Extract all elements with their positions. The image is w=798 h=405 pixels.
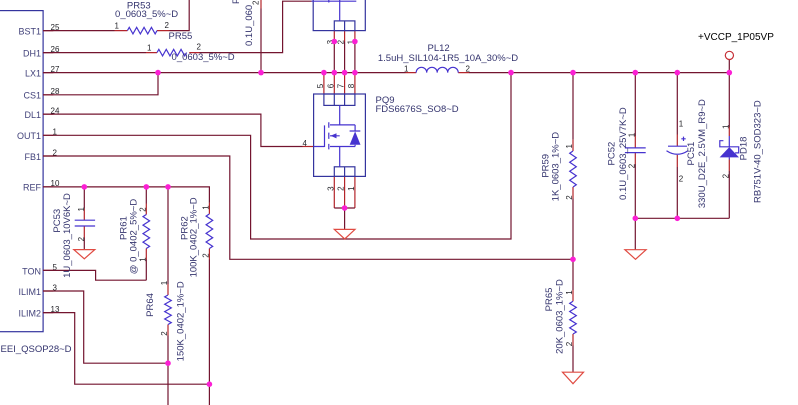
svg-text:1K_0603_1%~D: 1K_0603_1%~D [551, 132, 562, 202]
wire OUT1 net to VCCP rail [43, 73, 511, 239]
wire PR64 branch [167, 187, 169, 405]
svg-text:2: 2 [679, 175, 684, 184]
IC PU (QSOP28 controller, left, partially cut) [0, 11, 43, 332]
wire FB1 net to feedback divider [43, 156, 573, 259]
svg-text:20K_0603_1%~D: 20K_0603_1%~D [554, 279, 565, 354]
svg-text:2: 2 [466, 64, 471, 73]
svg-text:P: P [231, 0, 242, 4]
ground under PQ9 [334, 229, 355, 239]
junction REF PC53 [82, 184, 88, 190]
svg-text:0.1U_0603_25V7K~D: 0.1U_0603_25V7K~D [618, 107, 629, 200]
svg-text:1: 1 [115, 22, 120, 31]
svg-text:DL1: DL1 [24, 110, 41, 120]
svg-text:PD18: PD18 [739, 137, 750, 161]
ground under PC52 node [625, 250, 646, 260]
transistor PQ9 box [314, 94, 366, 176]
PQ9 body diode [350, 125, 361, 147]
wire ILIM1 net [43, 291, 168, 363]
svg-text:PC51: PC51 [686, 142, 697, 166]
ground under PC53 [74, 250, 95, 259]
svg-text:330U_D2E_2.5VM_R9~D: 330U_D2E_2.5VM_R9~D [697, 99, 708, 208]
resistor PR62 [206, 214, 213, 249]
junction ILIM2 PR62 [207, 381, 213, 387]
junction PD18 on rail [727, 70, 733, 76]
svg-text:1: 1 [627, 132, 636, 137]
svg-text:CS1: CS1 [23, 91, 41, 101]
svg-text:ILIM1: ILIM1 [18, 287, 41, 297]
svg-text:4: 4 [303, 139, 308, 148]
capacitor PC52 [625, 148, 646, 153]
resistor PR64 [165, 295, 172, 325]
wire BST1 net (pin25 to PR53, PR53 to riser up) [43, 0, 189, 31]
wire PD18 branch and VCC stub [728, 60, 730, 219]
svg-text:+VCCP_1P05VP: +VCCP_1P05VP [698, 32, 774, 43]
junction REF PR61 [144, 184, 150, 190]
svg-text:1: 1 [565, 290, 574, 295]
svg-text:1U_0603_10V6K~D: 1U_0603_10V6K~D [62, 193, 73, 278]
capacitor PC51 polarized [667, 137, 689, 155]
IC pin stubs [43, 31, 53, 313]
resistor PR55 [157, 49, 187, 56]
svg-text:0_0603_5%~D: 0_0603_5%~D [172, 52, 235, 63]
diode PD18 [720, 136, 739, 160]
junction PQ9 source bar [342, 205, 348, 211]
svg-text:2: 2 [77, 236, 86, 241]
junction PQ9 pin5 [321, 70, 327, 76]
svg-text:1: 1 [147, 44, 152, 53]
svg-text:TON: TON [22, 267, 41, 277]
svg-text:2: 2 [197, 43, 202, 52]
resistor PR61 [143, 215, 150, 249]
svg-text:2: 2 [138, 207, 147, 212]
wire LX rail left segment [43, 72, 405, 74]
wire PC53 branch [83, 187, 85, 250]
wire REF net [43, 187, 209, 203]
svg-text:5: 5 [316, 83, 325, 88]
svg-text:RB751V-40_SOD323~D: RB751V-40_SOD323~D [752, 100, 763, 203]
svg-text:2: 2 [165, 21, 170, 30]
svg-text:1: 1 [565, 144, 574, 149]
wire PC52 branch [634, 73, 636, 250]
svg-text:8: 8 [347, 83, 356, 88]
wire TON net [43, 270, 146, 280]
junction OUT riser on rail [508, 70, 514, 76]
svg-text:1: 1 [77, 207, 86, 212]
svg-text:PC52: PC52 [607, 142, 618, 166]
svg-text:OUT1: OUT1 [17, 131, 41, 141]
wire PQ9 source pins 3 2 1 to ground bar [334, 176, 355, 208]
svg-text:1: 1 [138, 257, 147, 262]
junction PQ9 pin6 [332, 70, 338, 76]
svg-text:2: 2 [336, 39, 345, 44]
wire upper FET source pins 3 2 1 to rail [334, 31, 355, 42]
junction bootstrap cap on LX [258, 70, 264, 76]
wire PR59 branch [572, 73, 574, 260]
junction FB node [570, 257, 576, 263]
inductor PL12 [416, 67, 458, 72]
junction PC51 on rail [675, 70, 681, 76]
junction PR59 on rail [570, 70, 576, 76]
svg-text:3: 3 [326, 186, 335, 191]
resistor PR59 [570, 151, 577, 187]
junction ILIM1 PR64 [165, 360, 171, 366]
svg-text:2: 2 [201, 253, 210, 258]
wire VCCP rail right segment [469, 72, 729, 74]
wire DH1 net (pin26 to PR55, PR55 to upper FET gate) [43, 1, 311, 52]
wire PR65 branch [572, 259, 574, 372]
svg-text:EEI_QSOP28~D: EEI_QSOP28~D [1, 344, 72, 355]
junction PQ9 pin7 [342, 70, 348, 76]
svg-text:150K_0402_1%~D: 150K_0402_1%~D [176, 281, 187, 361]
junction upper FET pin1 [352, 39, 358, 45]
svg-text:1: 1 [679, 119, 684, 128]
junction PQ9 pin8 [352, 70, 358, 76]
ground under PR65 [563, 372, 584, 384]
svg-text:2: 2 [160, 331, 169, 336]
svg-text:1: 1 [722, 124, 731, 129]
svg-text:2: 2 [565, 195, 574, 200]
wire PC51 branch [676, 73, 678, 219]
svg-text:FB1: FB1 [24, 152, 41, 162]
junction REF PR64 [165, 184, 171, 190]
svg-text:1: 1 [347, 186, 356, 191]
svg-text:2: 2 [337, 186, 346, 191]
svg-text:BST1: BST1 [18, 26, 41, 36]
svg-text:6: 6 [326, 83, 335, 88]
svg-text:1: 1 [404, 64, 409, 73]
junction ground node PC52 [633, 216, 639, 222]
PQ9 MOSFET symbol [314, 105, 356, 166]
svg-text:0.1U_060: 0.1U_060 [244, 5, 255, 46]
wire bootstrap cap branch 0.1U [260, 0, 262, 9]
junction PC52 on rail [633, 70, 639, 76]
resistor PR53 [127, 27, 157, 34]
junction ground node PC51 [675, 216, 681, 222]
svg-text:FDS6676S_SO8~D: FDS6676S_SO8~D [376, 104, 459, 115]
svg-text:2: 2 [252, 0, 261, 5]
svg-text:1.5uH_SIL104-1R5_10A_30%~D: 1.5uH_SIL104-1R5_10A_30%~D [378, 53, 518, 64]
svg-text:2: 2 [722, 173, 731, 178]
capacitor PC53 [75, 220, 95, 226]
svg-text:1: 1 [201, 205, 210, 210]
svg-text:2: 2 [627, 163, 636, 168]
wire ground node line [635, 217, 729, 219]
svg-text:REF: REF [23, 183, 42, 193]
junction CS1/LX [155, 70, 161, 76]
wire PR62 bottom branch [208, 249, 210, 260]
svg-text:1: 1 [160, 280, 169, 285]
wire CS1 net [43, 73, 158, 95]
svg-text:PR55: PR55 [169, 31, 193, 42]
svg-text:LX1: LX1 [25, 68, 41, 78]
svg-text:ILIM2: ILIM2 [18, 308, 41, 318]
svg-text:2: 2 [565, 341, 574, 346]
svg-text:0_0603_5%~D: 0_0603_5%~D [115, 9, 178, 20]
svg-text:DH1: DH1 [23, 48, 41, 58]
wire PQ9 drain pins 5 6 7 8 to rail [324, 73, 355, 94]
power symbol +VCCP_1P05VP [725, 51, 733, 59]
upper MOSFET (cut off at top edge) [312, 0, 366, 31]
svg-text:PR64: PR64 [145, 293, 156, 317]
svg-text:100K_0402_1%~D: 100K_0402_1%~D [189, 197, 200, 277]
svg-text:7: 7 [337, 83, 346, 88]
wire DL1 net to PQ9 gate [43, 114, 302, 146]
wire PR61 branch [145, 187, 147, 280]
wire ILIM2 net [43, 313, 209, 385]
resistor PR65 [570, 301, 577, 334]
junction upper FET pin3 [332, 39, 338, 45]
